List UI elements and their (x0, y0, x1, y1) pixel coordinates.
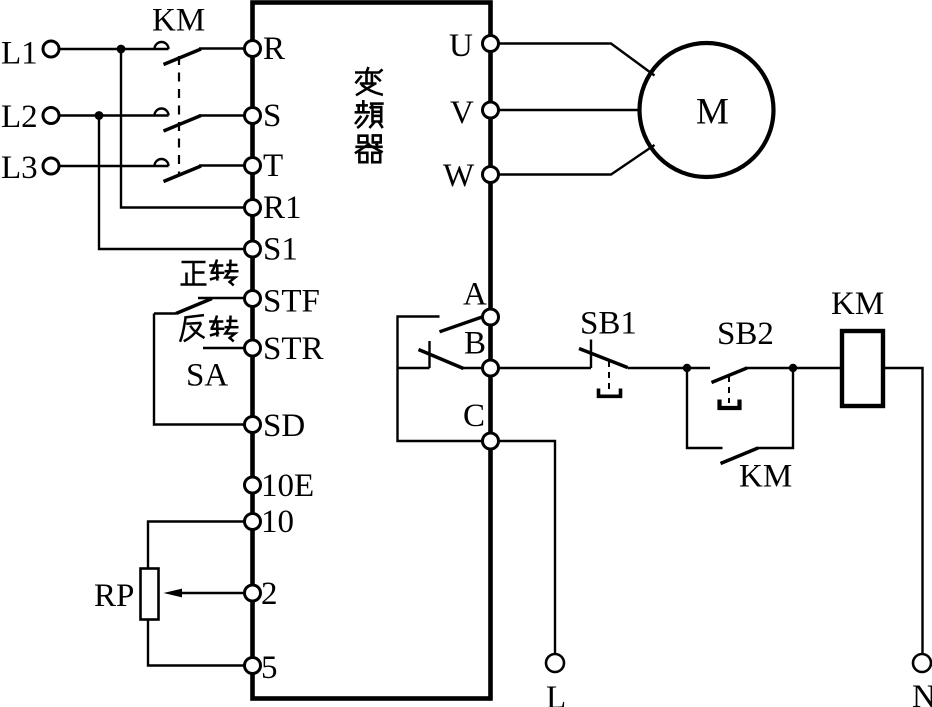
motor M (640, 43, 774, 177)
svg-text:STR: STR (263, 331, 324, 367)
terminal STR (245, 340, 261, 356)
terminal STF (245, 291, 261, 307)
terminal L (546, 654, 564, 672)
KM linkage dashed (178, 56, 180, 176)
svg-text:T: T (263, 148, 283, 184)
wire junction to SB2 (687, 367, 710, 369)
wire junction L2 down to S1 (99, 116, 245, 250)
wire SB2 to junction (745, 367, 793, 369)
potentiometer RP body (141, 569, 159, 620)
wire junction to coil (793, 367, 842, 369)
wire STR stub (203, 347, 245, 349)
wire 10 to RP top (148, 522, 245, 569)
wire V to motor (499, 109, 640, 111)
svg-text:L1: L1 (1, 36, 38, 72)
terminal L3 (43, 158, 59, 174)
pushbutton SB2 (NO) blade (712, 368, 748, 383)
svg-text:R1: R1 (263, 190, 302, 226)
wire U to motor (499, 44, 655, 76)
SB2 button cap (720, 400, 740, 409)
wire junction L1 down to R1 (121, 49, 245, 208)
wire L3 to KM pole3 (59, 165, 169, 167)
svg-text:SA: SA (186, 358, 228, 394)
svg-text:A: A (463, 277, 487, 313)
relay NC branch stub (398, 367, 430, 369)
svg-text:L2: L2 (1, 99, 38, 135)
terminal SD (245, 417, 261, 433)
svg-text:SB2: SB2 (717, 316, 774, 352)
terminal 5 (245, 658, 261, 674)
node junction on L2 wire (95, 111, 104, 120)
SB1 actuator dashed (608, 361, 610, 393)
terminal V (483, 102, 499, 118)
svg-text:KM: KM (152, 3, 205, 39)
inverter box U1 变频器 (253, 3, 491, 699)
KM auxiliary contact loop (687, 368, 723, 448)
contactor KM pole 1 (155, 42, 245, 64)
wire blade to B (461, 367, 482, 369)
terminal 10E (245, 477, 261, 493)
SB1 button cap (599, 389, 621, 397)
wire SB1 to junction (628, 367, 688, 369)
wire RP bottom to 5 (148, 620, 245, 666)
频 (355, 100, 384, 128)
svg-text:10: 10 (261, 504, 294, 540)
terminal N (913, 654, 931, 672)
contactor KM pole 3 (155, 159, 245, 182)
terminal W (483, 167, 499, 183)
wire B to SB1 (499, 367, 592, 369)
terminal A (483, 309, 499, 325)
terminal C (483, 433, 499, 449)
terminal R (245, 41, 261, 57)
svg-text:5: 5 (261, 650, 278, 686)
terminal B (483, 360, 499, 376)
terminal R1 (245, 200, 261, 216)
svg-text:C: C (463, 398, 485, 434)
switch SA forward blade (176, 299, 212, 314)
svg-text:RP: RP (94, 578, 134, 614)
relay NC post (428, 341, 430, 368)
terminal S (245, 108, 261, 124)
terminal L1 (43, 41, 59, 57)
svg-text:M: M (696, 92, 729, 133)
wire RP wiper arrow (178, 592, 245, 594)
relay NO blade to A (440, 317, 484, 332)
wire SA common (154, 314, 245, 425)
SB2 actuator dashed (728, 376, 730, 403)
svg-text:STF: STF (263, 284, 320, 320)
wire L2 to KM pole2 (59, 114, 169, 116)
terminal T (245, 158, 261, 174)
contactor KM pole 2 (155, 109, 245, 132)
svg-text:W: W (443, 158, 475, 194)
svg-text:N: N (912, 679, 932, 707)
label 正转 (181, 262, 207, 285)
svg-text:SB1: SB1 (580, 306, 637, 342)
svg-text:L3: L3 (1, 150, 38, 186)
wire blade to STF (198, 297, 245, 299)
器 (355, 135, 383, 162)
pushbutton SB1 blade (579, 349, 628, 368)
svg-text:SD: SD (263, 408, 305, 444)
label 变频器 (355, 67, 384, 162)
relay NC blade to B (419, 350, 464, 369)
svg-text:U: U (449, 28, 473, 64)
terminal S1 (245, 241, 261, 257)
svg-text:S: S (263, 98, 281, 134)
svg-text:V: V (450, 95, 474, 131)
relay output common loop to C (398, 317, 483, 442)
svg-text:L: L (546, 680, 566, 707)
node junction on L1 wire (117, 45, 126, 54)
KM aux blade (721, 448, 759, 464)
terminal L2 (43, 108, 59, 124)
label 反转 (180, 315, 205, 342)
node junction left of SB2 (683, 364, 691, 372)
terminal 10 (245, 514, 261, 530)
terminal 2 (245, 585, 261, 601)
wire L1 to KM pole1 (59, 48, 169, 50)
node junction right of SB2 (789, 364, 797, 372)
coil KM (842, 331, 883, 406)
svg-text:KM: KM (739, 459, 792, 495)
pushbutton SB1 (NC) post (590, 340, 592, 369)
terminal U (483, 36, 499, 52)
变 (355, 67, 383, 95)
wire C to L (499, 441, 556, 654)
wire W to motor (499, 145, 655, 175)
svg-text:S1: S1 (263, 232, 298, 268)
svg-text:KM: KM (831, 286, 884, 322)
svg-text:R: R (263, 31, 285, 67)
svg-text:B: B (464, 326, 486, 362)
svg-text:2: 2 (261, 576, 278, 612)
wire coil to N (883, 368, 923, 654)
svg-text:10E: 10E (261, 468, 314, 504)
